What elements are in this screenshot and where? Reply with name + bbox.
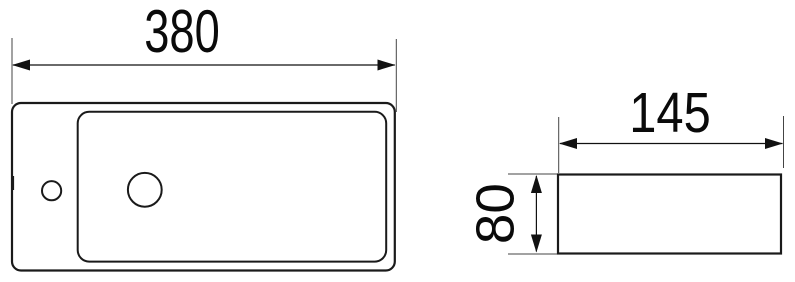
drain hole circle [128,173,162,207]
extension line right (380) [395,39,397,112]
tap hole circle [42,181,61,200]
extension line left (145) [558,117,560,173]
svg-text:145: 145 [629,81,711,145]
extension line bottom (80) [508,253,557,255]
overflow mark on left rim [12,176,14,190]
svg-text:80: 80 [466,183,526,244]
extension line right (145) [783,116,785,168]
arrowhead 380 left [12,60,30,71]
dimension line 80 [535,176,537,252]
cabinet body rectangle (side view) [558,175,781,254]
svg-text:380: 380 [144,0,220,65]
arrowhead 80 bottom [531,235,542,253]
extension line top (80) [508,173,557,175]
dimension line 380 [13,64,395,66]
basin outer outline (top view) [12,103,395,271]
dimension line 145 [560,143,783,145]
arrowhead 80 top [531,175,542,193]
arrowhead 145 right [765,138,783,149]
arrowhead 145 left [559,138,577,149]
basin inner bowl (top view) [78,112,387,262]
arrowhead 380 right [378,60,396,71]
extension line left (380) [11,38,13,104]
